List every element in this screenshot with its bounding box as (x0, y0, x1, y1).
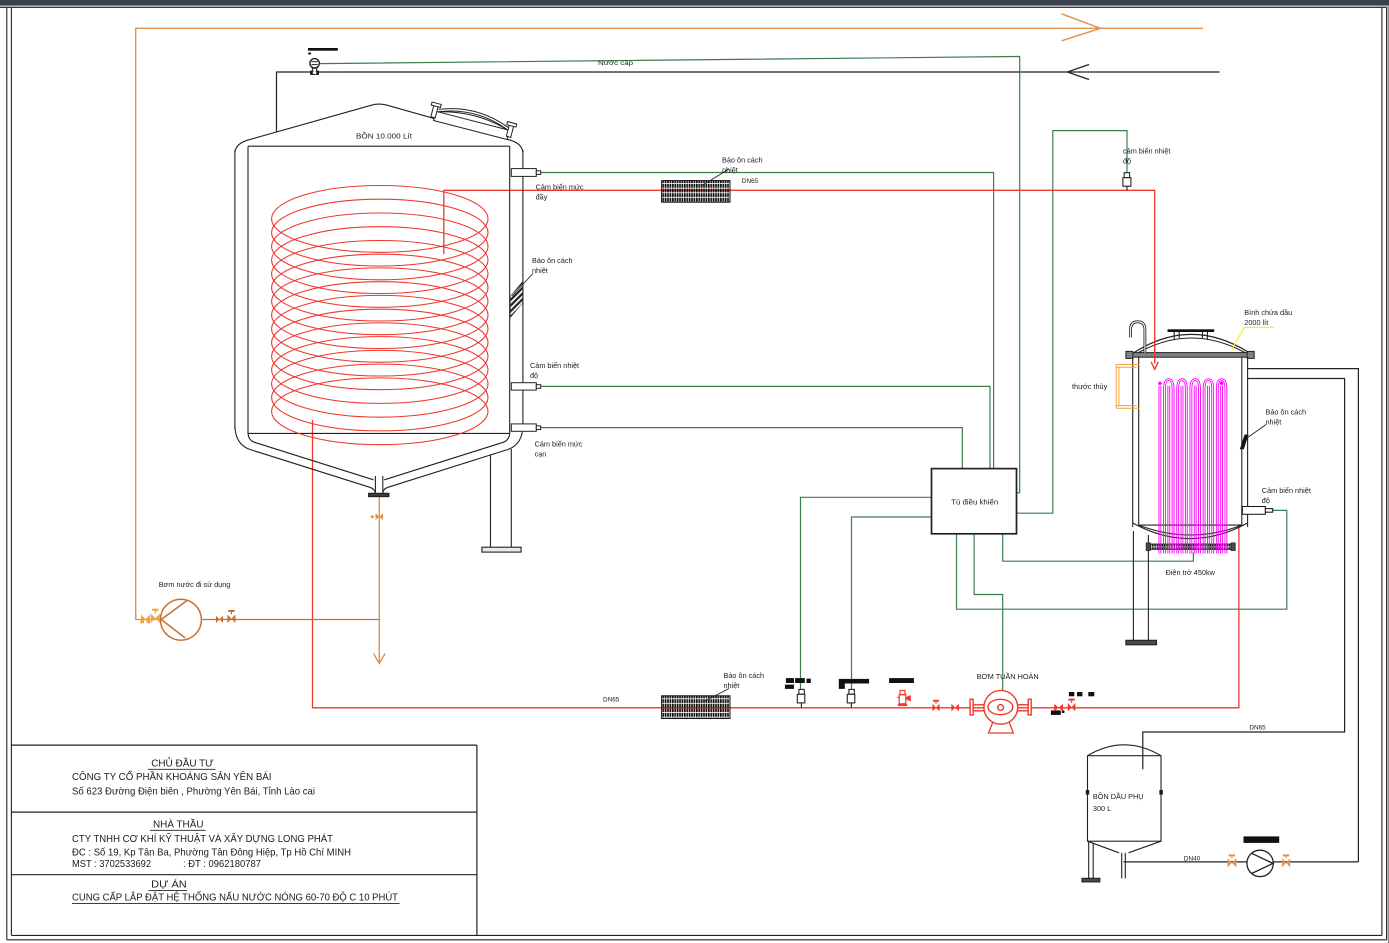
svg-text:cảm biến nhiệt: cảm biến nhiệt (1123, 147, 1170, 156)
svg-text:BƠM TUẦN HOÀN: BƠM TUẦN HOÀN (977, 671, 1039, 681)
svg-text:BỒN DẦU PHỤ: BỒN DẦU PHỤ (1093, 791, 1144, 801)
svg-text:Bảo ôn cách: Bảo ôn cách (532, 256, 573, 265)
svg-text:Cảm biến mức: Cảm biến mức (535, 440, 583, 449)
svg-text:CHỦ ĐẦU TƯ: CHỦ ĐẦU TƯ (151, 757, 214, 770)
svg-text:Cảm biến mức: Cảm biến mức (536, 183, 584, 192)
svg-text:đầy: đầy (536, 193, 548, 202)
svg-text:nhiệt: nhiệt (532, 266, 548, 275)
svg-text:độ: độ (1123, 157, 1131, 166)
svg-text:NHÀ THẦU: NHÀ THẦU (153, 818, 204, 831)
svg-text:Bảo ôn cách: Bảo ôn cách (722, 156, 763, 165)
svg-text:Nước cấp: Nước cấp (598, 58, 634, 67)
svg-text:độ: độ (1262, 496, 1270, 505)
svg-text:Tủ điều khiển: Tủ điều khiển (951, 498, 998, 507)
svg-text:nhiệt: nhiệt (722, 166, 738, 175)
svg-text:300 L: 300 L (1093, 804, 1111, 813)
svg-text:nhiệt: nhiệt (724, 681, 740, 690)
svg-text:Điện trở 450kw: Điện trở 450kw (1166, 568, 1216, 577)
svg-text:CÔNG TY CỔ PHẦN KHOÁNG SẢN YÊN: CÔNG TY CỔ PHẦN KHOÁNG SẢN YÊN BÁI (72, 770, 272, 783)
svg-text:DN65: DN65 (603, 697, 620, 704)
svg-text:DN65: DN65 (1249, 725, 1266, 732)
svg-text:CTY TNHH CƠ KHÍ KỸ THUẬT VÀ XÂ: CTY TNHH CƠ KHÍ KỸ THUẬT VÀ XÂY DỰNG LON… (72, 832, 334, 845)
svg-text:độ: độ (530, 371, 538, 380)
svg-text:DN40: DN40 (1184, 856, 1201, 863)
svg-text:: ĐT : 0962180787: : ĐT : 0962180787 (183, 859, 261, 870)
svg-text:Cảm biến nhiệt: Cảm biến nhiệt (530, 361, 579, 370)
svg-text:cạn: cạn (535, 450, 547, 459)
svg-text:Số 623 Đường Điện biên , Phườn: Số 623 Đường Điện biên , Phường Yên Bái,… (72, 785, 315, 797)
svg-text:2000 lít: 2000 lít (1244, 318, 1268, 327)
svg-text:DN65: DN65 (742, 178, 759, 185)
svg-text:MST : 3702533692: MST : 3702533692 (72, 859, 151, 870)
svg-text:ĐC : Số 19, Kp Tân Ba, Phường: ĐC : Số 19, Kp Tân Ba, Phường Tân Đông H… (72, 847, 351, 859)
svg-text:DỰ ÁN: DỰ ÁN (151, 878, 187, 891)
svg-text:CUNG CẤP LẮP ĐẶT HỆ THỐNG NẤU: CUNG CẤP LẮP ĐẶT HỆ THỐNG NẤU NƯỚC NÓNG … (72, 890, 399, 904)
svg-text:nhiệt: nhiệt (1266, 418, 1282, 427)
svg-text:BỒN 10.000 Lít: BỒN 10.000 Lít (356, 131, 412, 141)
svg-text:thước thủy: thước thủy (1072, 382, 1108, 391)
svg-text:Bảo ôn cách: Bảo ôn cách (1266, 408, 1307, 417)
svg-text:Bình chứa dầu: Bình chứa dầu (1244, 308, 1292, 317)
svg-text:Bảo ôn cách: Bảo ôn cách (724, 671, 765, 680)
svg-text:Bơm nước đi sử dụng: Bơm nước đi sử dụng (159, 580, 231, 589)
svg-text:Cảm biến nhiệt: Cảm biến nhiệt (1262, 486, 1311, 495)
